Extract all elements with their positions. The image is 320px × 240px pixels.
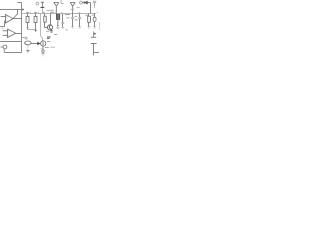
wire column to meter: [41, 14, 43, 42]
electrolytic C9 bottom right: [93, 31, 95, 37]
resistor R5: [88, 14, 90, 17]
op-amp U1b input marks: [8, 31, 9, 36]
connector circle small top: [36, 2, 39, 5]
label mic: [25, 37, 28, 39]
label values mid: [65, 14, 70, 16]
wire op-amp2 input bottom: [3, 34, 8, 36]
capacitor C7 electrolytic: [94, 14, 96, 17]
connector J1: [3, 45, 7, 49]
meter M1: [41, 41, 46, 46]
op-amp U1b: [8, 29, 16, 38]
arrow down supply: [34, 30, 36, 32]
arrowhead: [37, 42, 40, 45]
rail bottom segment: [28, 29, 36, 31]
arrow under T1: [57, 25, 59, 27]
label C9 block: [75, 16, 78, 18]
wire bottom input run: [4, 49, 21, 53]
label under meter: [45, 47, 49, 49]
wire box bottom: [0, 41, 22, 43]
wire mic to meter: [31, 43, 38, 45]
label D1: [77, 7, 80, 9]
inductor T1 dark body: [56, 14, 60, 20]
ground Q1: [50, 31, 53, 32]
antenna L1 top: [54, 3, 59, 15]
ground C5: [71, 27, 74, 28]
wire vertical main left bus: [21, 3, 23, 53]
resistor R1: [27, 14, 29, 17]
wire diode to rail: [88, 3, 91, 14]
label R5: [85, 14, 88, 16]
ground under T1: [56, 27, 59, 28]
lamp: [42, 50, 44, 52]
microphone MIC1: [25, 41, 31, 45]
wire feedback diagonal: [13, 10, 18, 19]
capacitor C6: [79, 14, 81, 18]
wire top-left horizontal: [0, 9, 24, 11]
label dash mid rail: [66, 29, 68, 31]
node junction at top-left wire: [22, 9, 24, 11]
capacitor C5: [72, 14, 74, 18]
wire op-amp2 output: [16, 33, 22, 35]
capacitor C4: [62, 14, 64, 23]
ground C4: [61, 27, 64, 28]
crystal X1: [41, 2, 44, 7]
node plus mark: [1, 28, 3, 30]
ground under lamp: [41, 54, 44, 56]
op-amp U1a: [6, 14, 14, 23]
wire top cap: [17, 2, 21, 4]
label plus: [94, 33, 96, 35]
wire op-amp1 input top: [1, 16, 6, 18]
label IC1: [47, 10, 50, 12]
wire stub top mid: [61, 0, 64, 3]
op-amp U1a input marks: [6, 17, 7, 21]
label below Q1: [46, 31, 57, 34]
ground C6: [78, 27, 81, 28]
ground R5: [88, 27, 91, 28]
rail top middle: [22, 13, 97, 15]
wire box to mic label: [22, 37, 25, 39]
label C2: [42, 11, 45, 13]
label R1: [26, 11, 29, 13]
wire op-amp2 input top: [3, 30, 8, 32]
label R2: [34, 11, 37, 13]
transistor Q1: [47, 25, 52, 30]
wire op-amp1 input bottom: [0, 21, 6, 27]
wire op-amp1 output: [13, 18, 22, 20]
ground under mic: [27, 45, 29, 50]
resistor R2: [35, 14, 37, 17]
antenna L2 top: [70, 3, 75, 14]
labels row (drawn as gray smudges to avoid subpixel fringing): [25, 8, 98, 49]
wire connector stub: [1, 46, 4, 48]
diode D1: [82, 2, 84, 4]
connector circle top right: [80, 1, 83, 4]
resistor R3: [44, 14, 46, 17]
capacitor C8 top right: [93, 1, 96, 3]
label C7: [92, 14, 94, 16]
ground C7: [93, 27, 96, 28]
extra flecks annotation row: [30, 11, 98, 14]
label P1 bold: [47, 37, 51, 38]
label L1: [50, 9, 53, 11]
wire right edge: [98, 22, 100, 30]
